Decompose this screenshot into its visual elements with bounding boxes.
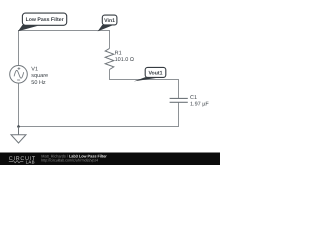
watermark bar — [0, 153, 220, 166]
svg-text:Vin1: Vin1 — [104, 18, 115, 24]
svg-text:Low Pass Filter: Low Pass Filter — [26, 17, 64, 23]
svg-text:101.0 Ω: 101.0 Ω — [115, 57, 134, 63]
svg-text:V1: V1 — [31, 66, 38, 72]
svg-text:R1: R1 — [115, 51, 122, 57]
node flag Vout1: pointer wedge — [134, 77, 158, 81]
svg-text:LAB: LAB — [26, 159, 35, 164]
svg-text:square: square — [31, 73, 48, 79]
annotation flag Low Pass Filter: pointer wedge — [18, 25, 38, 31]
watermark logo resistor glyph — [9, 161, 24, 163]
svg-text:http://circuitlab.com/c/uh7md8: http://circuitlab.com/c/uh7md82vpz4 — [41, 158, 99, 163]
voltage source V1 circle — [10, 66, 28, 84]
node flag Vin1: pointer wedge — [98, 25, 113, 32]
svg-text:Vout1: Vout1 — [148, 70, 162, 76]
V1 sine glyph — [14, 70, 24, 78]
wire: source bottom lead — [18, 83, 20, 126]
node flag Vout1: box — [145, 67, 166, 77]
node flag Vin1: box — [102, 15, 117, 25]
V1 minus sign — [17, 79, 20, 81]
V1 plus sign — [18, 67, 21, 70]
capacitor C1 bottom plate — [170, 101, 188, 103]
resistor R1 zigzag — [105, 48, 114, 69]
annotation flag Low Pass Filter: box — [22, 13, 66, 25]
ground symbol — [11, 127, 26, 144]
junction dot ground net — [17, 125, 20, 128]
svg-text:C1: C1 — [190, 95, 197, 101]
wire ground net: capacitor bottom to source bottom — [19, 102, 179, 126]
wire node Vin: source top to resistor top — [19, 31, 110, 66]
wire node Vout: resistor bottom to capacitor top — [110, 70, 179, 99]
svg-text:50 Hz: 50 Hz — [31, 80, 46, 86]
capacitor C1 top plate — [170, 97, 188, 99]
svg-text:1.97 µF: 1.97 µF — [190, 101, 209, 107]
